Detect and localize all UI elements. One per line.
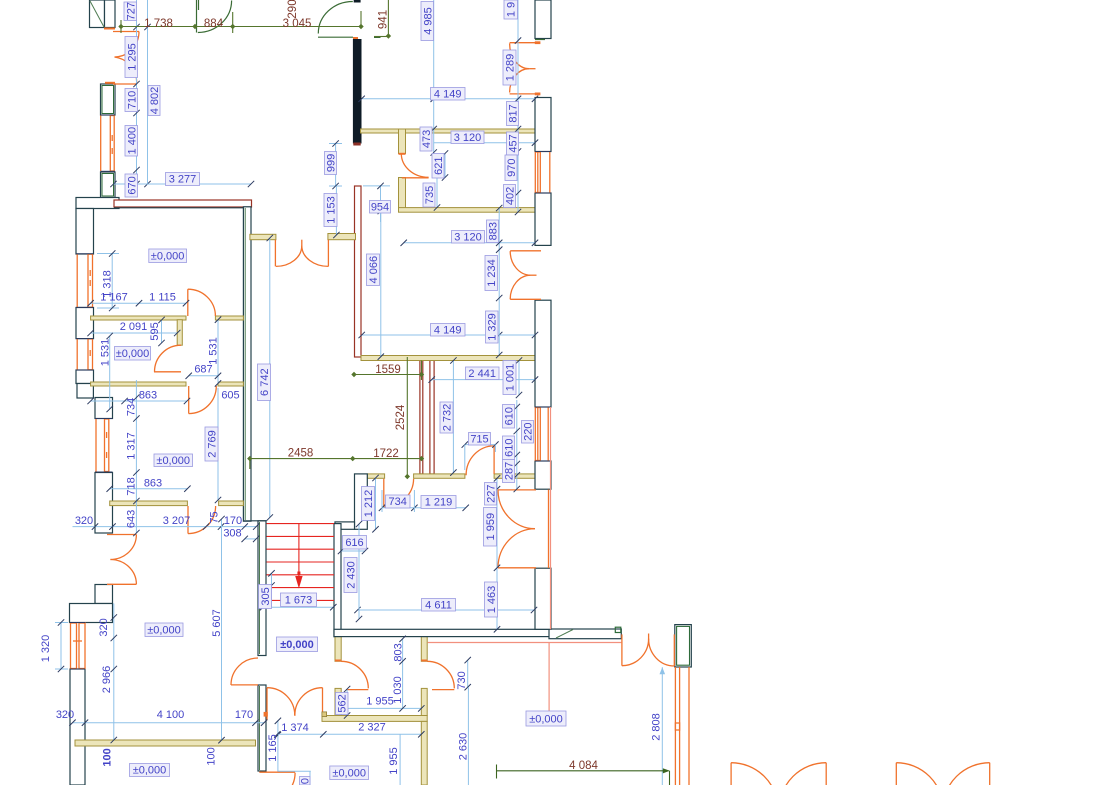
svg-text:1722: 1722 — [373, 448, 399, 460]
dim 616 — [338, 548, 368, 554]
stairs treads — [267, 524, 335, 601]
level box room3 — [154, 454, 193, 467]
label 1219 — [421, 496, 456, 509]
svg-text:100: 100 — [206, 747, 218, 765]
label 1959 — [484, 508, 498, 547]
wall horizontal y522-529 x335-354 — [335, 522, 355, 529]
svg-text:3 120: 3 120 — [454, 132, 482, 144]
svg-text:687: 687 — [194, 364, 212, 376]
door D11 double 1313 left wall — [107, 535, 136, 585]
window left lower x70-85 y622-669 — [70, 623, 85, 670]
svg-text:4 084: 4 084 — [569, 760, 598, 772]
label 2769 — [205, 427, 219, 461]
dim 1955 vert bottom — [399, 734, 401, 785]
door D5 top room x401 — [399, 154, 429, 178]
svg-text:1 463: 1 463 — [486, 586, 498, 614]
wall tan y715.5 bottom-mid — [322, 716, 427, 722]
wall maroon pair in room — [420, 357, 434, 474]
green dim 2524 — [405, 357, 410, 479]
window right wall y407-461 — [535, 407, 551, 461]
svg-text:2 327: 2 327 — [358, 722, 386, 734]
svg-text:3 045: 3 045 — [283, 18, 312, 30]
dim 4100 y722.7 — [69, 720, 267, 726]
svg-text:4 100: 4 100 — [157, 709, 185, 721]
door D16 734 corridor — [384, 479, 414, 507]
door D4 double 1289 right wall — [510, 41, 541, 95]
svg-text:605: 605 — [221, 390, 239, 402]
wall top-left corner box with diagonal — [90, 0, 116, 29]
svg-text:1 317: 1 317 — [126, 432, 138, 460]
dim 2441 — [429, 376, 539, 382]
label 1001 — [503, 361, 517, 395]
label 2430 — [344, 558, 358, 593]
label 616 — [343, 536, 367, 550]
dim 3207 chain y526.6 — [73, 523, 260, 529]
svg-text:±0,000: ±0,000 — [156, 455, 190, 467]
svg-text:2 430: 2 430 — [346, 561, 358, 589]
svg-text:954: 954 — [371, 201, 389, 213]
label 3277 — [166, 173, 200, 186]
dim 863 room2 — [87, 398, 190, 404]
wall stairwell right x334-341 — [334, 524, 341, 637]
label 220 — [522, 421, 535, 444]
label 1234 — [485, 256, 498, 291]
svg-text:3 207: 3 207 — [163, 515, 191, 527]
svg-text:±0,000: ±0,000 — [147, 624, 181, 636]
svg-text:±0,000: ±0,000 — [529, 714, 563, 726]
dim 2430 — [356, 521, 362, 622]
svg-text:643: 643 — [126, 510, 138, 528]
svg-text:1 153: 1 153 — [326, 196, 338, 224]
svg-text:1 329: 1 329 — [487, 313, 499, 341]
label 999 — [325, 152, 338, 175]
dim 1955 horiz — [347, 705, 424, 711]
level box stairs bold — [277, 637, 318, 652]
svg-text:305: 305 — [260, 587, 272, 605]
dim 1531 left — [107, 333, 113, 412]
green dim 941 — [374, 0, 391, 39]
svg-text:1559: 1559 — [375, 364, 401, 376]
svg-text:863: 863 — [144, 478, 162, 490]
svg-text:970: 970 — [506, 159, 518, 177]
wall room bottom y629-637 — [334, 629, 551, 636]
svg-text:320: 320 — [56, 709, 74, 721]
level box room4 — [145, 623, 183, 637]
svg-text:727: 727 — [126, 2, 138, 20]
wall black column top — [353, 0, 362, 146]
wall tan y474 segments — [367, 474, 536, 478]
svg-text:610: 610 — [504, 407, 516, 425]
dim chain right x518 — [515, 0, 521, 215]
label 473 — [420, 127, 433, 151]
label 1289 — [503, 50, 517, 85]
dim 4149 mid — [359, 332, 539, 338]
wall tan y382 — [91, 382, 244, 386]
dim 1374/2327 — [274, 731, 424, 737]
label 1463 — [485, 582, 499, 617]
level box right — [526, 711, 566, 726]
svg-text:170: 170 — [224, 515, 242, 527]
door D14 bottom room 1 — [335, 661, 368, 690]
wall corridor left x258-266 upper — [258, 521, 266, 656]
window left x95-112 y418-472 double — [95, 419, 113, 473]
svg-text:718: 718 — [126, 477, 138, 495]
svg-text:1 400: 1 400 — [127, 127, 139, 155]
svg-text:2 091: 2 091 — [120, 321, 148, 333]
label 621 — [432, 154, 445, 179]
svg-text:75: 75 — [209, 511, 221, 523]
svg-text:320: 320 — [98, 618, 110, 636]
window left upper x100-115 y115-172 — [101, 115, 116, 171]
svg-text:1 030: 1 030 — [392, 676, 404, 704]
svg-text:1 531: 1 531 — [100, 339, 112, 367]
dim 4066 — [378, 208, 384, 360]
svg-text:734: 734 — [389, 496, 407, 508]
svg-text:4 985: 4 985 — [423, 7, 435, 35]
label 954 — [370, 201, 391, 214]
stairs direction arrow — [295, 524, 302, 589]
svg-text:2 808: 2 808 — [651, 713, 663, 741]
label 2732 — [440, 402, 454, 433]
svg-text:±0,000: ±0,000 — [332, 767, 366, 779]
dim 715 — [462, 441, 499, 470]
svg-text:±0,000: ±0,000 — [151, 250, 185, 262]
dim 803/1030 — [399, 636, 405, 712]
svg-text:1 9: 1 9 — [506, 2, 518, 17]
dim 305 — [268, 570, 274, 607]
wall tan y355.5 — [361, 356, 535, 361]
svg-text:1 955: 1 955 — [388, 747, 400, 775]
svg-text:2524: 2524 — [395, 404, 407, 430]
door D7 room1 to room2 — [188, 289, 216, 316]
dim 1167/1115 — [87, 300, 189, 306]
svg-text:2 769: 2 769 — [207, 430, 219, 458]
door D6 double top middle hall — [275, 240, 328, 267]
svg-text:4 611: 4 611 — [425, 599, 452, 611]
svg-text:473: 473 — [421, 130, 433, 148]
label 4066 — [367, 254, 381, 286]
svg-text:0: 0 — [300, 778, 312, 784]
svg-text:4 149: 4 149 — [434, 324, 462, 336]
dim 1531 right — [215, 317, 221, 387]
label 3120 top — [451, 131, 484, 144]
label 1 9 cut — [504, 0, 518, 19]
svg-text:±0,000: ±0,000 — [116, 348, 150, 360]
dim 2630 — [467, 687, 469, 785]
svg-text:616: 616 — [345, 537, 363, 549]
salmon line vertical x549 — [548, 643, 550, 713]
dim 2769 — [215, 388, 221, 503]
door D9 y382 wall — [189, 386, 217, 414]
svg-text:1 531: 1 531 — [208, 337, 220, 365]
label 817 — [507, 102, 520, 126]
svg-text:883: 883 — [488, 222, 500, 240]
svg-text:730: 730 — [456, 671, 468, 689]
svg-text:1 673: 1 673 — [285, 594, 313, 606]
svg-text:4 149: 4 149 — [434, 88, 462, 100]
svg-text:±0,000: ±0,000 — [280, 639, 314, 651]
svg-text:287: 287 — [504, 462, 516, 480]
level box bottom-left — [130, 764, 170, 777]
dim 2808 — [660, 667, 666, 785]
level box room1 — [149, 249, 187, 263]
dim 2091 — [87, 330, 180, 336]
svg-text:1 001: 1 001 — [505, 364, 517, 392]
wall maroon top of room1 — [114, 200, 252, 208]
wall tan y129 — [361, 129, 537, 133]
label 1295 — [125, 37, 139, 78]
svg-text:320: 320 — [75, 515, 93, 527]
door D2 green swing top — [197, 0, 232, 33]
svg-text:1 955: 1 955 — [366, 696, 394, 708]
label 287 — [503, 460, 516, 483]
svg-text:4 066: 4 066 — [368, 256, 380, 284]
svg-text:3 277: 3 277 — [169, 174, 197, 186]
dim line 4802 x155.5 — [144, 0, 150, 187]
dim 4611 — [354, 607, 537, 613]
label 4802 — [148, 86, 161, 116]
wall right column x535-551 segments — [535, 0, 551, 629]
label 0 cut — [300, 777, 312, 785]
svg-text:290: 290 — [287, 0, 299, 19]
green dim top chain — [118, 11, 363, 33]
svg-text:1 212: 1 212 — [363, 490, 375, 518]
wall tan interior y316 — [91, 316, 244, 320]
svg-text:1 738: 1 738 — [144, 18, 173, 30]
svg-text:2 732: 2 732 — [442, 404, 454, 432]
door D8 room2 interior — [154, 345, 181, 372]
svg-text:2 966: 2 966 — [101, 666, 113, 694]
svg-text:402: 402 — [505, 187, 517, 205]
wall exterior right-bottom with diagonal — [549, 627, 621, 639]
dim 1320 — [55, 619, 68, 672]
wall stair top line — [243, 520, 266, 522]
dim 5607 — [218, 516, 224, 744]
svg-text:170: 170 — [235, 709, 253, 721]
dim 730 — [465, 657, 471, 691]
label 734 corridor — [386, 495, 411, 508]
label 1329 — [486, 311, 499, 343]
svg-text:1 115: 1 115 — [149, 292, 176, 304]
door D18 double 1234 right wall — [510, 251, 541, 299]
salmon line horizontal y642.5 — [428, 642, 622, 644]
wall corridor left lower below door — [258, 685, 266, 771]
svg-text:562: 562 — [337, 694, 349, 712]
wall column x354.5-367 y474-529 — [355, 474, 368, 529]
dim 863 room3 — [107, 486, 191, 492]
dim 1165 — [275, 718, 281, 772]
label 727 — [124, 2, 138, 21]
svg-text:5 607: 5 607 — [211, 609, 223, 637]
svg-text:817: 817 — [508, 104, 520, 122]
svg-text:735: 735 — [424, 186, 436, 204]
label 1212 — [362, 487, 376, 521]
door D15 bottom room 2 — [421, 661, 454, 690]
svg-text:220: 220 — [523, 423, 535, 441]
dim 1153 — [333, 186, 339, 238]
label 883 — [487, 220, 500, 243]
svg-text:1 165: 1 165 — [267, 734, 279, 762]
dim 473 — [431, 99, 437, 156]
window left x76-93 y253-317 — [76, 254, 94, 308]
wall tan vertical 2 bottom — [421, 637, 427, 785]
dim 3277 y184 — [110, 181, 254, 187]
dim 6742 — [267, 235, 273, 521]
wall left step band y197 — [76, 198, 119, 209]
dim chain left x136.5 — [133, 0, 139, 187]
window left x76-93 y348-385 — [76, 339, 94, 370]
door D10 y501 wall — [188, 506, 216, 534]
label 6742 — [258, 364, 272, 401]
door D19 double 1959 right wall — [498, 490, 549, 569]
door D13 interior double x267-322 — [264, 688, 327, 721]
wall tan sill blocks top double door — [250, 234, 356, 240]
dim 1212 — [372, 475, 378, 533]
dim 1318 — [97, 250, 119, 311]
wall tan vertical x398 top room — [399, 129, 406, 208]
svg-text:1 959: 1 959 — [485, 513, 497, 541]
label 402 — [504, 185, 517, 208]
svg-text:457: 457 — [508, 134, 520, 152]
door D17 715 corridor — [466, 446, 494, 475]
svg-text:1 234: 1 234 — [486, 259, 498, 287]
svg-text:1 219: 1 219 — [425, 497, 453, 509]
dim 2732 — [450, 357, 456, 476]
svg-text:999: 999 — [326, 154, 338, 172]
dim 308 — [242, 536, 260, 542]
label 4149 top — [431, 88, 466, 101]
wall left column x76-93.5 — [76, 209, 94, 399]
door D3 green swing top right — [318, 2, 381, 38]
svg-text:1 320: 1 320 — [40, 635, 52, 663]
label 610 a — [503, 405, 516, 429]
label 4985 — [421, 2, 435, 41]
svg-text:1 295: 1 295 — [127, 43, 139, 71]
label 1153 — [324, 194, 338, 227]
wall tan y740 bottom-left — [75, 740, 256, 746]
svg-text:734: 734 — [126, 398, 138, 416]
label 610 b — [503, 436, 516, 460]
door D22 big double door pair 1 — [731, 763, 826, 785]
label 1673 — [281, 593, 317, 607]
svg-text:2458: 2458 — [288, 448, 314, 460]
wall tan y501 — [110, 501, 244, 506]
svg-text:715: 715 — [470, 433, 488, 445]
dim 621 — [442, 150, 448, 180]
dim chain x516.8 610/220/287 — [514, 400, 520, 492]
dim chain x136.4 lower — [133, 380, 139, 536]
wall left column x95-112.5 — [95, 398, 113, 604]
label 970 — [505, 155, 518, 181]
label 715 — [469, 433, 491, 446]
wall pier x674-691 — [675, 625, 692, 667]
label 2441 — [466, 367, 500, 380]
wall left step box y603 — [70, 604, 113, 623]
door D12 corridor x258 — [231, 658, 258, 685]
svg-text:2 441: 2 441 — [468, 368, 496, 380]
wall tan y207.6 — [399, 208, 536, 213]
window strip bottom x676-684 y667-785 — [675, 667, 689, 785]
svg-text:710: 710 — [127, 91, 139, 109]
svg-text:621: 621 — [433, 157, 445, 175]
svg-text:±0,000: ±0,000 — [133, 765, 167, 777]
dim 562 — [344, 686, 350, 719]
wall tan vertical 1 bottom — [335, 637, 341, 716]
level box bottom-mid — [330, 766, 369, 780]
label 305 — [259, 585, 273, 609]
label 227 — [485, 483, 498, 506]
dim chain x497 227/1959/1463 — [494, 475, 500, 632]
dim 595 — [158, 317, 164, 346]
dim 1001 — [516, 357, 522, 398]
door D1 double 1295 left wall — [113, 32, 139, 85]
label 735 — [423, 183, 436, 207]
dim 734/1219 — [379, 490, 469, 512]
label 4611 — [422, 599, 456, 612]
label 3120 mid — [452, 231, 485, 244]
salmon line right wall face x550.5 — [550, 407, 552, 629]
svg-text:1 374: 1 374 — [281, 722, 309, 734]
wall tan vertical x177 — [177, 320, 182, 346]
green dim 2458/1722 — [247, 456, 424, 469]
dim 3120 top — [434, 140, 539, 146]
green dim 1559 — [351, 361, 424, 381]
svg-text:670: 670 — [127, 176, 139, 194]
svg-text:4 802: 4 802 — [149, 87, 161, 115]
door D23 big double door pair 2 — [896, 763, 989, 785]
label 1400 — [125, 126, 139, 157]
label 457 — [507, 132, 520, 155]
svg-text:3 120: 3 120 — [454, 231, 482, 243]
wall partition x243-251 — [243, 207, 251, 521]
window right wall y151-193 — [535, 152, 551, 194]
door D20 bottom of corridor — [259, 771, 311, 785]
dim 3120 mid — [401, 240, 539, 246]
svg-text:227: 227 — [486, 485, 498, 503]
label 4149 mid — [431, 324, 466, 337]
svg-text:6 742: 6 742 — [259, 368, 271, 396]
svg-text:2 630: 2 630 — [458, 733, 470, 761]
svg-text:610: 610 — [504, 439, 516, 457]
dim 954 — [363, 183, 390, 222]
label 562 — [336, 693, 349, 715]
svg-text:595: 595 — [149, 322, 161, 340]
svg-text:308: 308 — [223, 528, 241, 540]
label 710 — [125, 89, 139, 112]
dim 735 — [434, 178, 440, 211]
svg-text:863: 863 — [139, 390, 157, 402]
svg-text:100: 100 — [102, 748, 114, 766]
svg-text:884: 884 — [204, 18, 224, 30]
svg-text:803: 803 — [393, 643, 405, 661]
dim 4149 top — [358, 96, 538, 102]
wall left column lower x70-85 — [70, 669, 85, 785]
dim 687 — [186, 373, 222, 379]
door D21 double entry x618-675 — [622, 634, 674, 667]
svg-text:1 289: 1 289 — [505, 54, 517, 82]
level box room2 — [115, 347, 151, 361]
dim 1673 — [260, 604, 337, 610]
wall left column upper (x100-115) — [101, 83, 116, 198]
green dim 4084 — [497, 765, 670, 785]
label 670 — [125, 174, 139, 197]
wall maroon column x354-361 — [355, 186, 362, 357]
dim chain x113.8 — [111, 604, 117, 744]
dim 999 — [329, 140, 342, 189]
dim chain x499 — [496, 205, 502, 358]
svg-text:941: 941 — [378, 10, 390, 29]
svg-text:1 167: 1 167 — [100, 292, 128, 304]
